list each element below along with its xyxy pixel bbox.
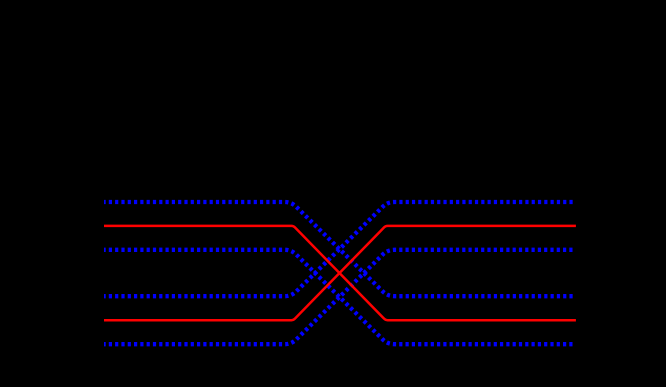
blue dotted level A3: left +3 to right -1	[104, 250, 576, 344]
blue dotted level A1: left +1 to right -3	[104, 202, 576, 296]
red solid level A2: left +2 to right -2	[104, 226, 576, 320]
blue dotted level D3: left -1 to right +3	[104, 250, 576, 344]
red solid level D2: left -2 to right +2	[104, 226, 576, 320]
blue dotted level D1: left -3 to right +1	[104, 202, 576, 296]
